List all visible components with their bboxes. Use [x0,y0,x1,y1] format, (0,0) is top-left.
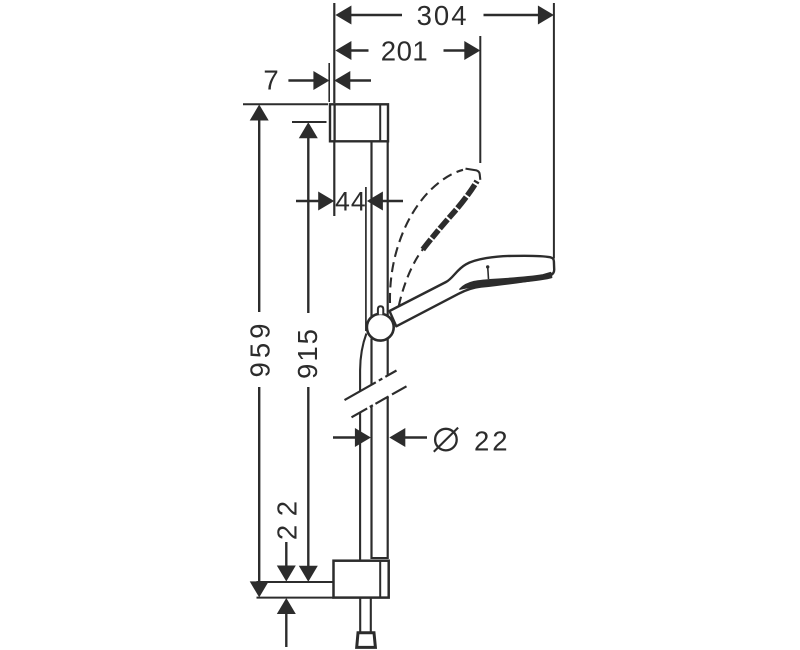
svg-text:201: 201 [381,35,428,66]
dimension Ø22 diameter symbol [434,428,458,452]
top bracket clamp line [379,104,381,141]
wall extension line (left ref of 304/201, above top bracket) [333,3,335,103]
dimension Ø22 left arrow [355,428,371,447]
svg-text:7: 7 [263,65,278,96]
rail break cut line upper (dash-dot) [345,371,397,401]
dimension 915 bottom arrow [299,566,318,582]
dimension 915 top arrow [299,122,318,138]
dimension 22 bottom arrow [277,598,296,614]
extension line right ref of 304 (to solid head tip) [553,3,555,259]
dimension 22 top arrow [277,566,296,582]
wall extension line below top bracket (left ref of 44) [333,142,335,216]
dimension 201 line [350,49,465,51]
rail left edge (upper part, cut by break and holder knob) [370,142,372,559]
dashed handshower head tip cap [466,169,481,180]
dimension 959 bottom arrow [250,581,269,597]
svg-text:304: 304 [417,0,469,31]
dimension 44 line [296,200,403,202]
dimension 22 line (bottom left) [285,542,287,647]
holder knob (slider) [367,314,394,341]
svg-text:22: 22 [474,426,511,457]
extension line right ref of 201 (to dashed head tip) [479,36,481,163]
holder pin on top [378,306,383,314]
shower hose left edge [360,334,366,632]
dashed handshower left outline (stowed upright position) [390,170,463,303]
solid handshower face detail dot [486,265,489,268]
solid handshower face detail tick [487,268,490,279]
dimension 7 line [288,79,371,81]
dimension 201 right arrow [464,41,480,60]
dimension 304 line [350,14,539,16]
dimension 44 right arrow [367,192,383,211]
top bracket wall plate line [333,104,335,141]
bottom bracket clamp line [379,561,381,598]
bottom bracket box [334,561,389,598]
shower hose right edge below bottom bracket [370,597,372,632]
dimension 44 left arrow [318,192,334,211]
top bracket outer box [330,104,388,141]
rail break cut line lower (dash-dot) [352,386,407,417]
dimension 7 right arrow [334,71,350,90]
svg-text:959: 959 [244,320,275,378]
dimension 7 left arrow [313,71,329,90]
extension line top ref of 959 (bracket top) [243,103,328,105]
extension line for 7 dim (bracket outer-left edge, above bracket) [328,63,330,102]
rail right edge [387,142,389,559]
svg-text:915: 915 [292,327,323,379]
extension line bottom ref of 915/22 [257,581,334,583]
dimension 959 top arrow [250,105,269,121]
solid handshower spray face (dark band) [460,273,552,290]
dashed handshower right outline [399,248,424,306]
solid handshower body outline (lying in holder) [390,256,555,327]
extension line right ref of 44 [365,187,367,331]
rail bottom cap [372,557,388,559]
dimension 304 right arrow [538,6,554,25]
svg-text:22: 22 [272,493,303,541]
svg-text:44: 44 [335,187,366,217]
dashed handshower spray face (dark band) [423,181,477,250]
dimension 915 line [307,137,309,568]
dimension 959 line [258,118,260,583]
dimension 304 left arrow [335,6,351,25]
dimension Ø22 right arrow [389,428,405,447]
extension line top ref of 915 (bracket hole center) [292,121,327,123]
dimension 201 left arrow [335,41,351,60]
extension line bottom ref of 959/22 (bracket bottom) [257,597,334,599]
hose end fitting (conical connector) [357,633,376,648]
dimension Ø22 line [333,436,427,438]
